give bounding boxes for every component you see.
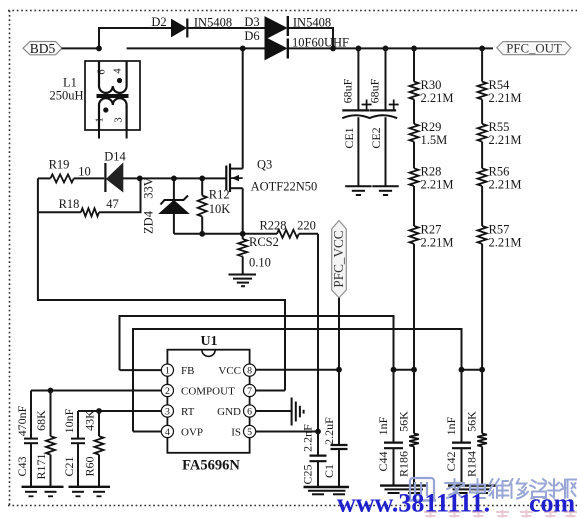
pin 8 VCC	[244, 364, 256, 376]
junction Q3 source / RCS2	[240, 231, 246, 237]
svg-text:C1: C1	[322, 464, 336, 478]
svg-text:5: 5	[247, 427, 252, 438]
svg-text:47: 47	[106, 197, 119, 211]
svg-text:2.21M: 2.21M	[489, 178, 522, 192]
resistor R186 56K	[397, 370, 419, 486]
junction dot BD5/L1/D2 node	[96, 46, 102, 52]
svg-text:Q3: Q3	[257, 158, 272, 172]
wire FB net y=316	[120, 316, 394, 370]
svg-text:2.2nF: 2.2nF	[301, 424, 315, 452]
svg-text:43K: 43K	[83, 410, 97, 431]
svg-text:2.21M: 2.21M	[489, 91, 522, 105]
svg-text:D6: D6	[244, 29, 259, 43]
resistor R29 1.5M	[410, 99, 448, 147]
svg-text:R54: R54	[489, 78, 511, 92]
pin 4 OVP	[161, 425, 173, 437]
resistor R19 10	[38, 158, 104, 183]
svg-text:250uH: 250uH	[49, 89, 83, 103]
capacitor C25 2.2nF	[301, 424, 327, 487]
resistor R228 220	[259, 219, 318, 238]
svg-text:2.21M: 2.21M	[489, 133, 522, 147]
pin 7	[244, 384, 256, 396]
svg-text:R30: R30	[421, 78, 442, 92]
wire FB node joining R27 chain	[394, 369, 415, 371]
svg-text:C21: C21	[62, 456, 76, 476]
svg-text:R184: R184	[465, 451, 479, 477]
wire Q3 drain	[242, 48, 244, 168]
wire pin1 FB stub	[120, 369, 162, 371]
resistor RCS2 0.10	[238, 234, 279, 274]
junction CE2 tap	[383, 46, 389, 52]
svg-text:BD5: BD5	[30, 41, 56, 56]
wire R30 chain top	[413, 48, 415, 81]
svg-text:R56: R56	[489, 165, 510, 179]
svg-text:2.21M: 2.21M	[421, 178, 454, 192]
node PFC_VCC flag	[331, 221, 346, 298]
svg-text:AOTF22N50: AOTF22N50	[251, 180, 318, 194]
svg-text:GND: GND	[217, 406, 241, 418]
junction R54 chain tap	[479, 46, 485, 52]
resistor R27 2.21M	[410, 186, 454, 249]
svg-text:470nF: 470nF	[15, 405, 29, 436]
wire R228 to IS pin riser	[317, 234, 319, 432]
capacitor CE2 68uF	[368, 48, 399, 195]
wire pin6 GND stub	[256, 410, 292, 412]
svg-text:68uF: 68uF	[341, 78, 355, 103]
svg-text:com: com	[529, 489, 576, 518]
ground bus C43/R171	[22, 487, 64, 497]
svg-text:1.5M: 1.5M	[421, 133, 448, 147]
svg-text:RCS2: RCS2	[249, 235, 279, 249]
junction ZD4 top	[171, 176, 177, 182]
resistor R56 2.21M	[478, 142, 522, 192]
svg-text:56K: 56K	[465, 411, 479, 432]
wire pin2 COMPOUT to C43/R171	[31, 390, 161, 392]
wire source node y=233.8	[174, 233, 277, 235]
svg-text:3: 3	[165, 406, 170, 417]
pin 6 GND	[244, 405, 256, 417]
node PFC_OUT flag	[497, 41, 571, 55]
svg-text:220: 220	[297, 219, 316, 233]
svg-text:1: 1	[165, 366, 170, 377]
svg-text:0.10: 0.10	[249, 256, 271, 270]
svg-text:L1: L1	[63, 76, 77, 90]
svg-text:10nF: 10nF	[62, 408, 76, 433]
svg-text:4: 4	[113, 68, 124, 74]
svg-text:1: 1	[95, 117, 106, 122]
wire PFC_VCC to VCC pin and C1	[338, 298, 340, 445]
svg-text:R27: R27	[421, 222, 442, 236]
svg-text:R228: R228	[259, 219, 286, 233]
wire rail from D6 cathode to PFC_OUT	[288, 47, 493, 49]
svg-text:C42: C42	[444, 451, 458, 471]
svg-text:IN5408: IN5408	[194, 16, 232, 30]
svg-text:4: 4	[165, 427, 170, 438]
resistor R18 47	[38, 178, 141, 216]
capacitor C43 470nF	[15, 391, 38, 487]
svg-text:R29: R29	[421, 120, 442, 134]
svg-text:2.21M: 2.21M	[421, 91, 454, 105]
svg-text:www.3811111.: www.3811111.	[337, 489, 490, 518]
ground bus C42/R184	[448, 486, 496, 493]
svg-text:R171: R171	[34, 453, 48, 479]
svg-text:IN5408: IN5408	[293, 16, 331, 30]
svg-text:3: 3	[114, 117, 125, 122]
inductor L1 250uH	[49, 61, 140, 139]
svg-text:IS: IS	[231, 427, 241, 439]
watermark seal logo	[408, 478, 436, 501]
diode D3 IN5408	[244, 15, 331, 39]
junction CE1 tap	[356, 46, 362, 52]
svg-text:R28: R28	[421, 165, 442, 179]
svg-text:R57: R57	[489, 222, 510, 236]
ground below RCS2	[229, 275, 257, 287]
svg-text:ZD4: ZD4	[142, 210, 156, 234]
svg-text:PFC_OUT: PFC_OUT	[506, 41, 562, 55]
ground bus C25/C1	[304, 487, 350, 494]
junction R12 bottom	[199, 231, 205, 237]
svg-text:33V: 33V	[142, 177, 156, 199]
wire left bus from R19/R18 down to pin7 net	[38, 178, 285, 390]
resistor R30 2.21M	[410, 78, 454, 105]
capacitor C1 2.2uF	[322, 417, 348, 487]
junction R30 chain tap	[411, 46, 417, 52]
svg-text:C44: C44	[376, 451, 390, 471]
transistor Q3 AOTF22N50	[226, 48, 317, 233]
svg-text:10: 10	[78, 165, 91, 179]
resistor R57 2.21M	[478, 186, 522, 249]
wire R57 chain bottom to OVP node	[481, 244, 483, 370]
junction Q3 drain on rail	[240, 46, 246, 52]
wire OVP node joining R57 chain	[462, 369, 483, 371]
capacitor C42 1nF	[444, 370, 471, 486]
wire main rail y=48 from L1 to D6	[127, 47, 265, 49]
svg-text:6: 6	[247, 406, 252, 417]
svg-text:6: 6	[97, 69, 108, 74]
wire pin4 OVP stub	[133, 431, 161, 433]
svg-text:8: 8	[247, 366, 252, 377]
svg-text:56K: 56K	[397, 411, 411, 432]
svg-text:VCC: VCC	[218, 365, 241, 377]
wire pin7 stub	[256, 390, 285, 392]
wire R27 chain bottom to FB node	[413, 244, 415, 370]
svg-text:68uF: 68uF	[368, 78, 382, 103]
svg-text:R18: R18	[59, 197, 80, 211]
resistor R28 2.21M	[410, 142, 454, 192]
svg-text:FB: FB	[181, 365, 194, 377]
diode D2 IN5408	[151, 15, 232, 38]
diode D6 10F60UHF	[244, 29, 349, 60]
resistor R184 56K	[465, 370, 487, 486]
watermark chinese text 家电维修资料网 (approximated strokes)	[445, 479, 577, 499]
svg-text:C43: C43	[15, 456, 29, 476]
svg-text:COMPOUT: COMPOUT	[181, 386, 235, 398]
wire pin8 VCC to PFC_VCC	[256, 369, 339, 371]
pin 1 FB	[161, 364, 173, 376]
svg-text:2.21M: 2.21M	[421, 235, 454, 249]
watermark pink fragments along bottom	[424, 510, 577, 518]
svg-text:U1: U1	[200, 334, 217, 349]
wire R54 chain top	[481, 48, 483, 81]
wire Q3 source	[242, 188, 244, 234]
junction gate node	[137, 176, 143, 182]
svg-text:R186: R186	[397, 451, 411, 477]
svg-text:FA5696N: FA5696N	[182, 458, 240, 474]
ground at pin6 (rotated)	[292, 398, 304, 426]
svg-text:10F60UHF: 10F60UHF	[292, 36, 349, 50]
junction D3 join	[330, 46, 336, 52]
svg-text:R60: R60	[83, 456, 97, 476]
svg-text:2: 2	[165, 386, 170, 397]
resistor R12 10K	[198, 178, 231, 233]
svg-text:CE2: CE2	[369, 127, 383, 148]
pin 5 IS	[244, 425, 256, 437]
pin 2 COMPOUT	[161, 384, 173, 396]
node BD5 flag	[23, 41, 62, 56]
junction R12 top	[199, 176, 205, 182]
resistor R54 2.21M	[478, 78, 522, 105]
svg-text:CE1: CE1	[342, 127, 356, 148]
svg-text:C25: C25	[301, 464, 315, 484]
diode D14	[104, 150, 226, 193]
svg-text:PFC_VCC: PFC_VCC	[331, 230, 346, 287]
ground bus C44/R186	[380, 486, 428, 493]
pin 3 RT	[161, 405, 173, 417]
svg-text:D14: D14	[104, 150, 126, 164]
svg-text:OVP: OVP	[181, 427, 203, 439]
svg-text:1nF: 1nF	[444, 416, 458, 435]
wire top rail y=28	[99, 28, 172, 48]
op-amp U1 FA5696N controller IC	[161, 334, 255, 474]
capacitor C44 1nF	[376, 370, 403, 486]
svg-text:68K: 68K	[34, 410, 48, 431]
wire BD5 to L1 junction	[62, 47, 100, 49]
ground bus C21/R60	[69, 487, 111, 497]
wire pin3 RT to C21/R60	[78, 410, 161, 412]
svg-text:R19: R19	[49, 158, 70, 172]
resistor R60 43K	[83, 410, 104, 486]
wire OVP net y=329	[133, 329, 462, 432]
svg-text:10K: 10K	[209, 202, 231, 216]
svg-text:D2: D2	[151, 15, 166, 29]
wire pin5 IS to R228/C25	[256, 431, 318, 433]
svg-text:R55: R55	[489, 120, 510, 134]
svg-text:7: 7	[247, 386, 252, 397]
zener diode ZD4 33V	[142, 177, 189, 234]
svg-text:2.2uF: 2.2uF	[322, 417, 336, 445]
resistor R171 68K	[34, 391, 55, 487]
svg-text:RT: RT	[181, 406, 195, 418]
svg-text:1nF: 1nF	[376, 416, 390, 435]
capacitor C21 10nF	[62, 408, 85, 486]
capacitor CE1 68uF	[341, 48, 372, 195]
svg-text:D3: D3	[244, 15, 259, 29]
svg-text:2.21M: 2.21M	[489, 235, 522, 249]
resistor R55 2.21M	[478, 99, 522, 147]
